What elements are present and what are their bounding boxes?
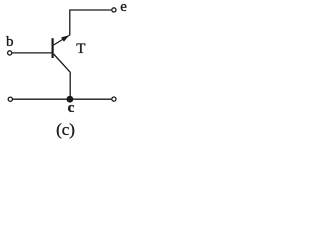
svg-text:b: b	[6, 34, 14, 50]
svg-text:(c): (c)	[56, 120, 75, 139]
wire emitter to e terminal	[70, 10, 111, 35]
terminal bottom-right	[112, 97, 116, 101]
terminal bottom-left	[8, 97, 12, 101]
svg-text:e: e	[120, 0, 127, 15]
node c	[67, 96, 74, 103]
wire bottom rail	[13, 98, 111, 100]
wire collector down	[69, 72, 71, 99]
terminal b	[8, 51, 12, 55]
transistor T emitter lead with arrow	[54, 35, 70, 45]
transistor T base bar	[51, 38, 53, 58]
svg-text:c: c	[68, 100, 75, 116]
transistor T collector lead	[54, 54, 71, 72]
wire base	[12, 52, 51, 54]
terminal e	[112, 8, 116, 12]
svg-text:T: T	[76, 41, 85, 57]
